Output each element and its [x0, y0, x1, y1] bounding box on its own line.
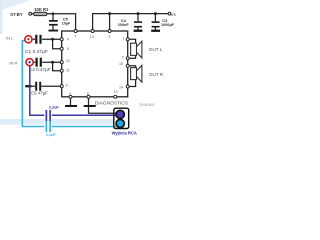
- svg-text:13: 13: [90, 35, 94, 39]
- svg-text:3: 3: [108, 35, 110, 39]
- svg-text:23HN2B41: 23HN2B41: [139, 103, 155, 107]
- svg-text:1: 1: [122, 37, 124, 41]
- svg-text:8: 8: [87, 92, 89, 96]
- svg-text:12: 12: [66, 59, 70, 63]
- svg-text:ST-BY: ST-BY: [10, 12, 23, 17]
- svg-text:4: 4: [67, 38, 69, 42]
- svg-text:11: 11: [66, 68, 70, 72]
- svg-text:10: 10: [114, 90, 118, 94]
- svg-text:15: 15: [119, 62, 123, 66]
- svg-text:Vs: Vs: [170, 12, 176, 17]
- svg-text:OUT R: OUT R: [149, 72, 164, 77]
- svg-text:1000µF: 1000µF: [161, 23, 175, 27]
- svg-text:7: 7: [74, 35, 76, 39]
- svg-text:C6 47µF: C6 47µF: [31, 90, 48, 95]
- svg-text:IN R: IN R: [9, 60, 17, 65]
- svg-text:OUT L: OUT L: [149, 47, 163, 52]
- svg-text:6: 6: [66, 83, 68, 87]
- svg-text:2,2uF: 2,2uF: [46, 133, 57, 137]
- svg-text:IN L: IN L: [6, 36, 14, 41]
- svg-text:C1 0.47µF: C1 0.47µF: [25, 49, 48, 55]
- svg-text:DIAGNOSTICS: DIAGNOSTICS: [95, 100, 128, 106]
- svg-text:C2 0.47µF: C2 0.47µF: [29, 67, 51, 72]
- svg-text:5: 5: [67, 47, 69, 51]
- svg-text:100nF: 100nF: [118, 23, 130, 27]
- svg-text:10µF: 10µF: [62, 22, 71, 26]
- svg-text:14: 14: [119, 85, 123, 89]
- svg-text:Wyjścia RCA: Wyjścia RCA: [112, 131, 137, 136]
- svg-text:10K R1: 10K R1: [34, 7, 49, 12]
- svg-text:9: 9: [69, 92, 71, 96]
- svg-text:2,2uF: 2,2uF: [49, 105, 60, 109]
- svg-text:2: 2: [122, 55, 124, 59]
